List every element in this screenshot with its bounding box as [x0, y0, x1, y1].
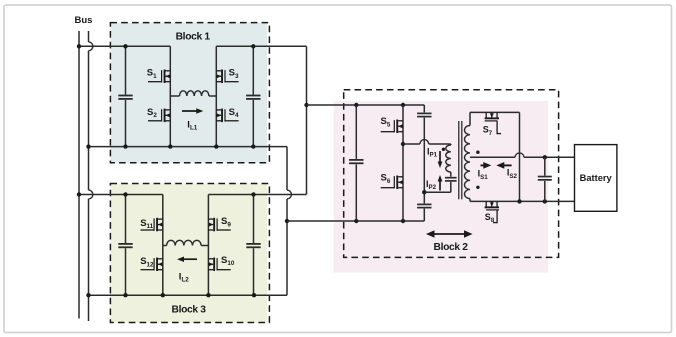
svg-text:Block 1: Block 1	[176, 31, 211, 42]
svg-text:Block 2: Block 2	[434, 242, 469, 253]
svg-text:Block 3: Block 3	[172, 304, 207, 315]
svg-text:Bus: Bus	[75, 15, 93, 26]
svg-text:Battery: Battery	[580, 173, 613, 183]
